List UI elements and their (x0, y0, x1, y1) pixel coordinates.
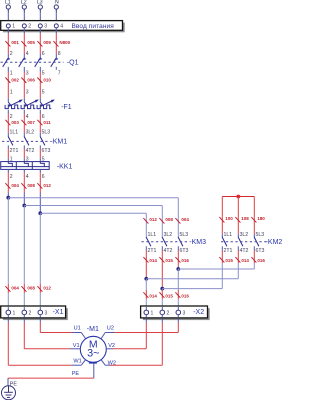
svg-text:1: 1 (10, 89, 13, 95)
svg-text:-Q1: -Q1 (67, 59, 79, 66)
wire label 008 (159, 217, 173, 224)
svg-text:8: 8 (58, 51, 61, 57)
svg-text:016: 016 (181, 293, 189, 298)
svg-text:4T2: 4T2 (240, 248, 249, 254)
svg-text:-F1: -F1 (61, 104, 72, 111)
wire net 010 Q1 to F1 (39, 67, 41, 102)
wire net 004 elbow down to KM3 pole 3 (177, 198, 179, 237)
svg-text:2: 2 (28, 24, 31, 30)
svg-text:016: 016 (181, 258, 189, 263)
svg-text:5L3: 5L3 (256, 232, 265, 238)
svg-text:3: 3 (26, 89, 29, 95)
svg-text:014: 014 (149, 258, 157, 263)
svg-text:2T1: 2T1 (224, 248, 233, 254)
svg-text:012: 012 (149, 217, 157, 222)
wire net 015 KM3 pole 2 output (161, 246, 163, 288)
terminal block box Ввод питания (power input) (1, 21, 125, 33)
wire label 004 (175, 217, 189, 224)
wire net 015 junction down to X2 (161, 289, 163, 307)
junction node net 004 (6, 196, 10, 200)
svg-text:1: 1 (12, 24, 15, 30)
contactor KM1 pole 2 contact (24, 136, 29, 145)
svg-text:3L2: 3L2 (240, 232, 249, 238)
wire N terminal to input box (55, 9, 57, 24)
wire KM1 to KK1 pole 3 (39, 145, 41, 161)
motor stub W1 (72, 360, 86, 365)
circuit breaker Q1 pole 2 contact (19, 58, 26, 67)
wire net 011 F1 to KM1 (39, 110, 41, 137)
svg-text:015: 015 (225, 258, 233, 263)
wire L3 terminal to input box (39, 9, 41, 24)
svg-text:6: 6 (42, 174, 45, 180)
wire label 006 (21, 78, 35, 84)
svg-text:008: 008 (27, 286, 35, 291)
svg-text:004: 004 (11, 286, 19, 291)
svg-text:015: 015 (165, 293, 173, 298)
KM1 mechanical link dashed (2, 140, 51, 142)
svg-text:3: 3 (44, 24, 47, 30)
junction node net 008 (22, 204, 26, 208)
wire label 015 (159, 257, 173, 263)
wire label 012 above X1 (37, 286, 51, 292)
svg-text:4: 4 (26, 51, 29, 57)
svg-text:1L1: 1L1 (224, 232, 233, 238)
wire net 005 box to Q1 (23, 28, 25, 59)
terminal 3 of X1 (38, 307, 48, 318)
wire net 012 junction down to X1 (39, 213, 41, 306)
wire net 100 bus down to KM2 pole 1 (221, 197, 223, 238)
svg-text:Ввод питания: Ввод питания (72, 23, 115, 30)
svg-text:4T2: 4T2 (26, 148, 35, 154)
wire label 016 above X2 (175, 292, 189, 298)
wire net 108 bus down to KM2 pole 2 (237, 197, 239, 238)
wire net 008 junction down to X1 (23, 206, 25, 307)
wire motor PE down (93, 364, 95, 379)
svg-text:180: 180 (257, 216, 265, 221)
svg-text:009: 009 (43, 40, 51, 45)
svg-text:6T3: 6T3 (42, 148, 51, 154)
wire net 012 KK1 to junction (39, 169, 41, 213)
motor stub V2 (106, 348, 113, 350)
svg-text:5: 5 (42, 71, 45, 77)
svg-text:012: 012 (43, 183, 51, 188)
contactor KM3 pole 3 contact (178, 237, 183, 246)
KM3 mechanical link dashed (142, 241, 189, 243)
wire net N800 box to Q1 (55, 28, 57, 59)
svg-text:7: 7 (58, 71, 61, 77)
wire net 008 horizontal feeder to KM3 (24, 205, 162, 207)
wire net 006 Q1 to F1 (23, 67, 25, 102)
svg-text:6T3: 6T3 (256, 248, 265, 254)
svg-text:N800: N800 (59, 40, 70, 45)
svg-text:011: 011 (43, 120, 51, 125)
wire net 004 KK1 to junction (7, 169, 9, 197)
wire label 100 (219, 216, 233, 223)
motor stub W2 (101, 360, 110, 365)
terminal 1 of input box (6, 24, 15, 30)
svg-text:2: 2 (29, 311, 32, 317)
svg-text:6T3: 6T3 (180, 248, 189, 254)
terminal 2 of X1 (22, 307, 32, 318)
wire label 004 (5, 183, 19, 189)
wire label 002 (5, 78, 19, 84)
terminal 2 of input box (22, 24, 31, 30)
svg-text:-KM2: -KM2 (266, 239, 282, 246)
wire label 012 (37, 183, 51, 189)
circuit breaker Q1 pole 3 contact (35, 58, 42, 67)
motor PE terminal bar (89, 362, 97, 364)
svg-text:2: 2 (10, 51, 13, 57)
motor protection breaker F1 pole 2 (21, 100, 39, 109)
wire label 016 (175, 257, 189, 263)
wire label N800 (53, 40, 70, 47)
svg-text:015: 015 (165, 258, 173, 263)
wire label 008 (21, 183, 35, 189)
circuit breaker Q1 pole 4 contact (51, 58, 58, 67)
wire X2-3 to motor U2 (114, 318, 178, 332)
wire label 014 (143, 257, 157, 263)
wire label 010 (37, 78, 51, 84)
svg-text:U1: U1 (74, 325, 81, 331)
motor stub U2 (101, 333, 114, 339)
svg-text:5: 5 (42, 89, 45, 95)
svg-text:2: 2 (167, 311, 170, 317)
circuit breaker Q1 pole 1 contact (3, 58, 10, 67)
svg-text:U2: U2 (107, 325, 114, 331)
wire net 004 junction down to X1 (7, 198, 9, 307)
wire label 007 (21, 120, 35, 126)
svg-text:-M1: -M1 (87, 326, 99, 333)
contactor KM1 pole 3 contact (40, 136, 45, 145)
wire KM1 to KK1 pole 1 (7, 145, 9, 161)
svg-text:001: 001 (11, 40, 19, 45)
contactor KM3 pole 1 contact (146, 237, 151, 246)
contactor KM2 pole 1 contact (222, 237, 227, 246)
wire net 014 junction down to X2 (145, 279, 147, 307)
svg-text:005: 005 (27, 40, 35, 45)
motor stub V1 (70, 348, 80, 350)
wire net 008 KK1 to junction (23, 169, 25, 205)
wire label 180 (251, 216, 265, 223)
KM2 mechanical link dashed (221, 241, 267, 243)
svg-text:014: 014 (241, 258, 249, 263)
wire label 014 above X2 (143, 292, 157, 298)
wire X2-1 to motor V2 (113, 318, 146, 349)
wire X1-1 to motor W1 (8, 318, 71, 365)
svg-text:007: 007 (27, 120, 35, 125)
svg-text:004: 004 (181, 217, 189, 222)
svg-text:-X1: -X1 (53, 309, 64, 316)
junction node net 015 (160, 287, 164, 291)
thermal relay KK1 body (1, 162, 50, 170)
wire label 015 (219, 257, 233, 263)
svg-text:012: 012 (43, 286, 51, 291)
svg-text:3~: 3~ (87, 348, 99, 360)
wire link KM3 to KM2 output (146, 278, 238, 280)
wire PE down to earth (7, 378, 9, 386)
wire label 004 above X1 (5, 286, 19, 292)
wire net 014 KM3 pole 1 output (145, 246, 147, 278)
motor M1 circle (80, 336, 106, 362)
node N supply terminal (54, 0, 59, 9)
terminal 1 of X1 (6, 307, 16, 318)
wire label 005 (21, 40, 35, 47)
svg-text:3: 3 (45, 311, 48, 317)
svg-text:014: 014 (149, 293, 157, 298)
svg-text:004: 004 (11, 183, 19, 188)
svg-text:3L2: 3L2 (164, 232, 173, 238)
svg-text:1: 1 (151, 311, 154, 317)
svg-text:5L3: 5L3 (180, 232, 189, 238)
svg-text:002: 002 (11, 78, 19, 83)
wire net 001 box to Q1 (7, 28, 9, 59)
wire label 015 above X2 (159, 292, 173, 298)
KK1 heater element pole 1 (8, 162, 12, 167)
wire X1-3 to motor U1 (40, 318, 71, 332)
wire label 011 (37, 120, 51, 126)
wire net 014 KM2 pole 2 output to link (237, 246, 239, 278)
svg-text:2T1: 2T1 (148, 248, 157, 254)
svg-text:016: 016 (257, 258, 265, 263)
KK1 heater element pole 3 (40, 162, 44, 167)
svg-text:V1: V1 (73, 343, 80, 349)
wire label 008 above X1 (21, 286, 35, 292)
terminal strip -X1 box (1, 306, 68, 320)
terminal 1 of X2 (144, 307, 154, 318)
svg-text:-KK1: -KK1 (57, 163, 73, 170)
svg-text:6: 6 (42, 51, 45, 57)
svg-text:2: 2 (10, 174, 13, 180)
wire label 009 (37, 40, 51, 47)
svg-text:006: 006 (27, 78, 35, 83)
wire PE horizontal (8, 377, 94, 379)
contactor KM2 pole 2 contact (238, 237, 243, 246)
terminal 2 of X2 (160, 307, 170, 318)
wire net 008 elbow down to KM3 pole 2 (161, 206, 163, 238)
wire link KM3 to KM2 output (178, 268, 254, 270)
wire stub below Q1 pole 4 (55, 67, 57, 70)
svg-text:1: 1 (13, 311, 16, 317)
node L2 supply terminal (21, 0, 27, 9)
wire KM1 to KK1 pole 2 (23, 145, 25, 161)
wire net 002 Q1 to F1 (7, 67, 9, 102)
wire L2 terminal to input box (23, 9, 25, 24)
node L1 supply terminal (5, 0, 11, 9)
node L3 supply terminal (37, 0, 43, 9)
motor stub U1 (72, 333, 86, 339)
svg-text:4: 4 (60, 24, 63, 30)
terminal 4 of input box (54, 24, 63, 30)
wire net 012 horizontal feeder to KM3 (40, 212, 146, 214)
svg-text:2T1: 2T1 (10, 148, 19, 154)
protective earth symbol (2, 386, 16, 400)
terminal 3 of input box (38, 24, 47, 30)
svg-text:W1: W1 (73, 358, 81, 364)
junction node KM2 bus (236, 195, 240, 199)
svg-text:-KM1: -KM1 (50, 139, 67, 146)
wire net 100 KM2 supply bus (222, 196, 254, 198)
svg-text:4: 4 (26, 174, 29, 180)
wire net 009 box to Q1 (39, 28, 41, 59)
wire label 012 (143, 217, 157, 224)
wire label 003 (5, 120, 19, 126)
wire net 016 KM2 pole 3 output to link (253, 246, 255, 269)
wire net 016 KM3 pole 3 output (177, 246, 179, 269)
terminal strip -X2 box (141, 306, 210, 320)
svg-text:100: 100 (225, 216, 233, 221)
svg-text:3: 3 (26, 71, 29, 77)
svg-text:3L2: 3L2 (26, 130, 35, 136)
wire X2-2 to motor W2 (110, 318, 162, 365)
junction node net 016 (176, 267, 180, 271)
svg-text:PE: PE (72, 371, 80, 377)
wire label 108 (235, 216, 249, 223)
junction node net 014 (144, 277, 148, 281)
motor protection breaker F1 pole 1 (5, 100, 23, 109)
wire net 012 elbow down to KM3 pole 1 (145, 213, 147, 237)
svg-text:V2: V2 (108, 343, 115, 349)
svg-text:008: 008 (165, 217, 173, 222)
svg-text:3: 3 (183, 311, 186, 317)
svg-text:1L1: 1L1 (148, 232, 157, 238)
wire net 180 bus down to KM2 pole 3 (253, 197, 255, 238)
svg-text:1L1: 1L1 (10, 130, 19, 136)
wire link KM3 to KM2 output (162, 288, 222, 290)
svg-text:4T2: 4T2 (164, 248, 173, 254)
svg-text:-X2: -X2 (193, 309, 204, 316)
KK1 heater element pole 2 (24, 162, 28, 167)
svg-text:5L3: 5L3 (42, 130, 51, 136)
wire L1 terminal to input box (7, 9, 9, 24)
wire X1-2 to motor V1 (24, 318, 70, 349)
motor protection breaker F1 pole 3 (37, 100, 55, 109)
Q1 mechanical link dashed (1, 61, 64, 63)
terminal 3 of X2 (176, 307, 186, 318)
contactor KM2 pole 3 contact (254, 237, 259, 246)
wire label 014 (235, 257, 249, 263)
svg-text:008: 008 (27, 183, 35, 188)
wire label 016 (251, 257, 265, 263)
wire net 003 F1 to KM1 (7, 110, 9, 137)
wire net 015 KM2 pole 1 output to link (221, 246, 223, 288)
wire label 001 (5, 40, 19, 47)
wire net 007 F1 to KM1 (23, 110, 25, 137)
svg-text:003: 003 (11, 120, 19, 125)
wire net 016 junction down to X2 (177, 269, 179, 306)
svg-text:010: 010 (43, 78, 51, 83)
svg-text:1: 1 (10, 71, 13, 77)
svg-text:108: 108 (241, 216, 249, 221)
contactor KM1 pole 1 contact (8, 136, 13, 145)
junction node net 012 (38, 211, 42, 215)
wire net 004 horizontal feeder to KM3 (8, 197, 178, 199)
contactor KM3 pole 2 contact (162, 237, 167, 246)
svg-text:-KM3: -KM3 (189, 239, 206, 246)
